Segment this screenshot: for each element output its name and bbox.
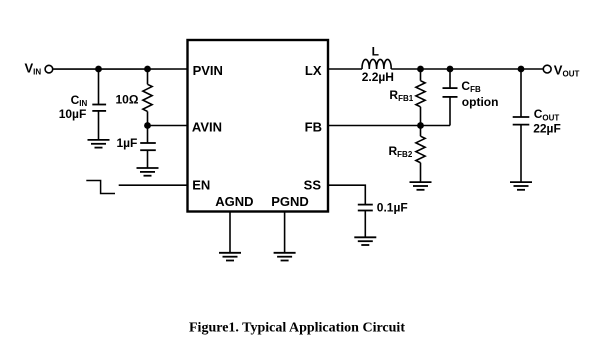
capacitor CIN: [92, 105, 106, 111]
svg-text:1µF: 1µF: [116, 136, 137, 150]
wire to resistor top: [147, 69, 149, 84]
node: junction dot at 10R branch: [144, 66, 151, 73]
wire RFB2 to ground: [420, 163, 422, 182]
wire COUT to ground: [520, 125, 522, 183]
wire 1uF to ground: [147, 150, 149, 168]
node: junction dot RFB1: [417, 66, 424, 73]
wire PGND: [284, 212, 286, 253]
svg-text:AGND: AGND: [215, 194, 253, 209]
svg-text:22µF: 22µF: [533, 121, 561, 135]
EN falling-edge symbol: [86, 181, 115, 194]
svg-text:10µF: 10µF: [59, 107, 87, 121]
wire EN: [119, 184, 187, 186]
node: junction dot at AVIN: [144, 122, 151, 129]
svg-text:PVIN: PVIN: [193, 63, 223, 78]
ground (AGND): [219, 253, 241, 261]
svg-text:SS: SS: [304, 177, 322, 192]
resistor 10R: [143, 84, 152, 111]
op-amp U1 : converter IC box: [188, 40, 329, 212]
wire FB junction to RFB2: [420, 126, 422, 137]
resistor RFB1: [416, 81, 425, 107]
wire VIN to PVIN: [53, 68, 187, 70]
capacitor COUT: [513, 117, 530, 125]
wire CIN to ground: [98, 111, 100, 140]
capacitor 1uF: [140, 143, 156, 150]
svg-text:AVIN: AVIN: [192, 119, 222, 134]
wire to CFB: [449, 69, 451, 88]
node: junction dot CFB: [447, 66, 454, 73]
ground (RFB2): [410, 182, 432, 190]
wire AGND: [229, 212, 231, 253]
capacitor 0.1uF: [358, 205, 373, 211]
wire LX to inductor: [328, 68, 362, 70]
svg-text:2.2µH: 2.2µH: [362, 70, 394, 84]
ground (SS cap): [354, 237, 376, 245]
node: junction dot FB: [417, 122, 424, 129]
wire SS: [328, 185, 365, 204]
svg-text:0.1µF: 0.1µF: [377, 201, 408, 215]
ground (CIN): [88, 140, 110, 148]
node: junction dot at CIN branch: [95, 66, 102, 73]
wire CIN drop: [98, 69, 100, 105]
ground (COUT): [510, 182, 532, 190]
inductor L 2.2uH: [362, 59, 391, 69]
svg-text:L: L: [372, 45, 379, 59]
svg-text:option: option: [462, 95, 499, 109]
wire SS cap to ground: [364, 211, 366, 238]
terminal VOUT: [543, 65, 551, 73]
svg-text:PGND: PGND: [271, 194, 309, 209]
wire inductor to VOUT: [391, 68, 543, 70]
terminal VIN: [45, 65, 53, 73]
wire resistor to AVIN rail: [147, 111, 149, 125]
wire FB rail: [328, 125, 450, 127]
wire CFB down to FB rail: [449, 97, 451, 126]
ground (PGND): [274, 253, 296, 261]
wire AVIN rail: [148, 125, 188, 127]
node: junction dot COUT: [518, 66, 525, 73]
resistor RFB2: [416, 136, 425, 163]
wire COUT drop: [520, 69, 522, 117]
svg-text:10Ω: 10Ω: [116, 92, 139, 106]
svg-text:LX: LX: [305, 63, 322, 78]
ground (1uF): [137, 168, 159, 176]
svg-text:Figure1. Typical Application C: Figure1. Typical Application Circuit: [189, 320, 405, 335]
wire to RFB1: [420, 69, 422, 81]
capacitor CFB: [443, 88, 458, 97]
wire RFB1 to FB rail: [420, 107, 422, 126]
svg-text:FB: FB: [305, 120, 322, 135]
svg-text:EN: EN: [192, 177, 210, 192]
wire AVIN junction down to 1uF: [147, 126, 149, 144]
